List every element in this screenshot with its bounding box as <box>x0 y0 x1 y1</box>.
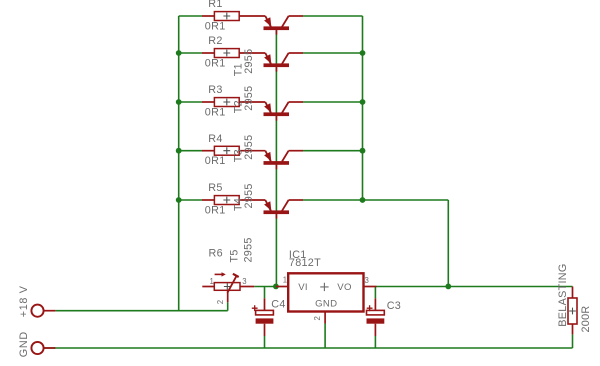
pad GND <box>31 342 55 354</box>
wire C3 bottom to GND <box>374 336 376 348</box>
svg-text:R3: R3 <box>208 84 222 96</box>
resistor R5 <box>202 196 265 205</box>
wire left +18V bus vertical <box>178 16 180 311</box>
svg-text:0R1: 0R1 <box>205 204 226 216</box>
svg-text:GND: GND <box>18 331 30 357</box>
svg-text:0R1: 0R1 <box>205 155 226 167</box>
junction VI node <box>273 284 279 290</box>
svg-text:0R1: 0R1 <box>205 57 226 69</box>
junction VO node <box>445 284 451 290</box>
svg-text:VI: VI <box>298 282 308 293</box>
wire row 5 collector to bus <box>303 199 363 201</box>
wire row 3 emitter feed <box>179 101 202 103</box>
junction right bus row 4 <box>360 148 366 154</box>
IC1 origin cross <box>320 283 328 291</box>
wire row 4 emitter feed <box>179 150 202 152</box>
svg-text:VO: VO <box>337 282 351 293</box>
svg-text:7812T: 7812T <box>289 257 321 269</box>
svg-text:R4: R4 <box>208 133 222 145</box>
svg-text:2955: 2955 <box>243 237 255 262</box>
svg-text:2: 2 <box>216 300 225 305</box>
pad +18V <box>31 305 55 317</box>
svg-text:BELASTING: BELASTING <box>557 263 569 326</box>
transistor T1 <box>264 16 304 35</box>
junction left bus row 5 <box>176 197 182 203</box>
junction right bus row 5 <box>360 197 366 203</box>
svg-text:2955: 2955 <box>243 135 255 160</box>
wire GND rail horizontal <box>44 347 573 349</box>
wire row 2 emitter feed <box>179 52 202 54</box>
wire collector bus to output corner horizontal <box>363 199 449 201</box>
svg-text:R5: R5 <box>208 182 222 194</box>
capacitor C3 <box>367 298 385 336</box>
resistor R1 <box>202 12 265 21</box>
svg-text:200R: 200R <box>580 305 592 332</box>
svg-text:2955: 2955 <box>243 49 255 74</box>
svg-text:R6: R6 <box>209 247 223 259</box>
wire output corner vertical <box>447 200 449 287</box>
wire load bottom to GND rail <box>572 334 574 348</box>
svg-text:2955: 2955 <box>243 86 255 111</box>
wire VO rail (IC1 to load) <box>377 286 573 288</box>
svg-text:C4: C4 <box>271 299 285 311</box>
svg-text:2955: 2955 <box>243 183 255 208</box>
potentiometer R6 <box>202 272 254 302</box>
junction right bus row 2 <box>360 50 366 56</box>
resistor R4 <box>202 146 265 155</box>
resistor BELASTING (load) <box>568 287 577 335</box>
wire row 5 emitter feed <box>179 199 202 201</box>
svg-text:1: 1 <box>210 277 215 286</box>
svg-text:3: 3 <box>242 277 247 286</box>
wire C4 top <box>264 287 266 299</box>
wire +18V rail horizontal <box>55 310 227 312</box>
transistor T3 <box>264 102 304 121</box>
transistor T4 <box>264 151 304 170</box>
junction left bus row 4 <box>176 148 182 154</box>
wire row 2 collector to bus <box>303 52 363 54</box>
transistor T5 <box>264 200 304 219</box>
svg-text:T5: T5 <box>229 249 241 262</box>
op-amp U IC1 voltage regulator box <box>276 273 377 323</box>
junction left bus row 2 <box>176 50 182 56</box>
wire R6 wiper to +18V rail <box>227 302 229 310</box>
wire IC1 GND pin to GND rail <box>324 324 326 349</box>
wire VI rail (R6 to IC1) <box>254 286 276 288</box>
capacitor C4 <box>252 298 274 336</box>
wire C3 top <box>374 287 376 299</box>
wire row 1 emitter feed <box>179 15 202 17</box>
wire right collector bus vertical <box>362 16 364 200</box>
resistor R3 <box>202 98 265 107</box>
svg-text:2: 2 <box>313 316 322 321</box>
transistor T2 <box>264 53 304 72</box>
svg-text:1: 1 <box>283 276 288 285</box>
wire row 3 collector to bus <box>303 101 363 103</box>
svg-text:3: 3 <box>365 276 370 285</box>
wire C4 bottom to GND <box>264 336 266 348</box>
svg-text:+18 V: +18 V <box>18 285 30 317</box>
svg-text:R1: R1 <box>208 0 222 10</box>
svg-text:GND: GND <box>315 298 337 309</box>
junction left bus row 3 <box>176 99 182 105</box>
wire base chain vertical <box>275 28 277 287</box>
svg-text:C3: C3 <box>387 300 401 312</box>
wire row 1 collector to bus <box>303 15 363 17</box>
svg-text:0R1: 0R1 <box>205 20 226 32</box>
junction right bus row 3 <box>360 99 366 105</box>
resistor R2 <box>202 49 265 58</box>
wire row 4 collector to bus <box>303 150 363 152</box>
svg-text:R2: R2 <box>208 35 222 47</box>
svg-text:0R1: 0R1 <box>205 106 226 118</box>
